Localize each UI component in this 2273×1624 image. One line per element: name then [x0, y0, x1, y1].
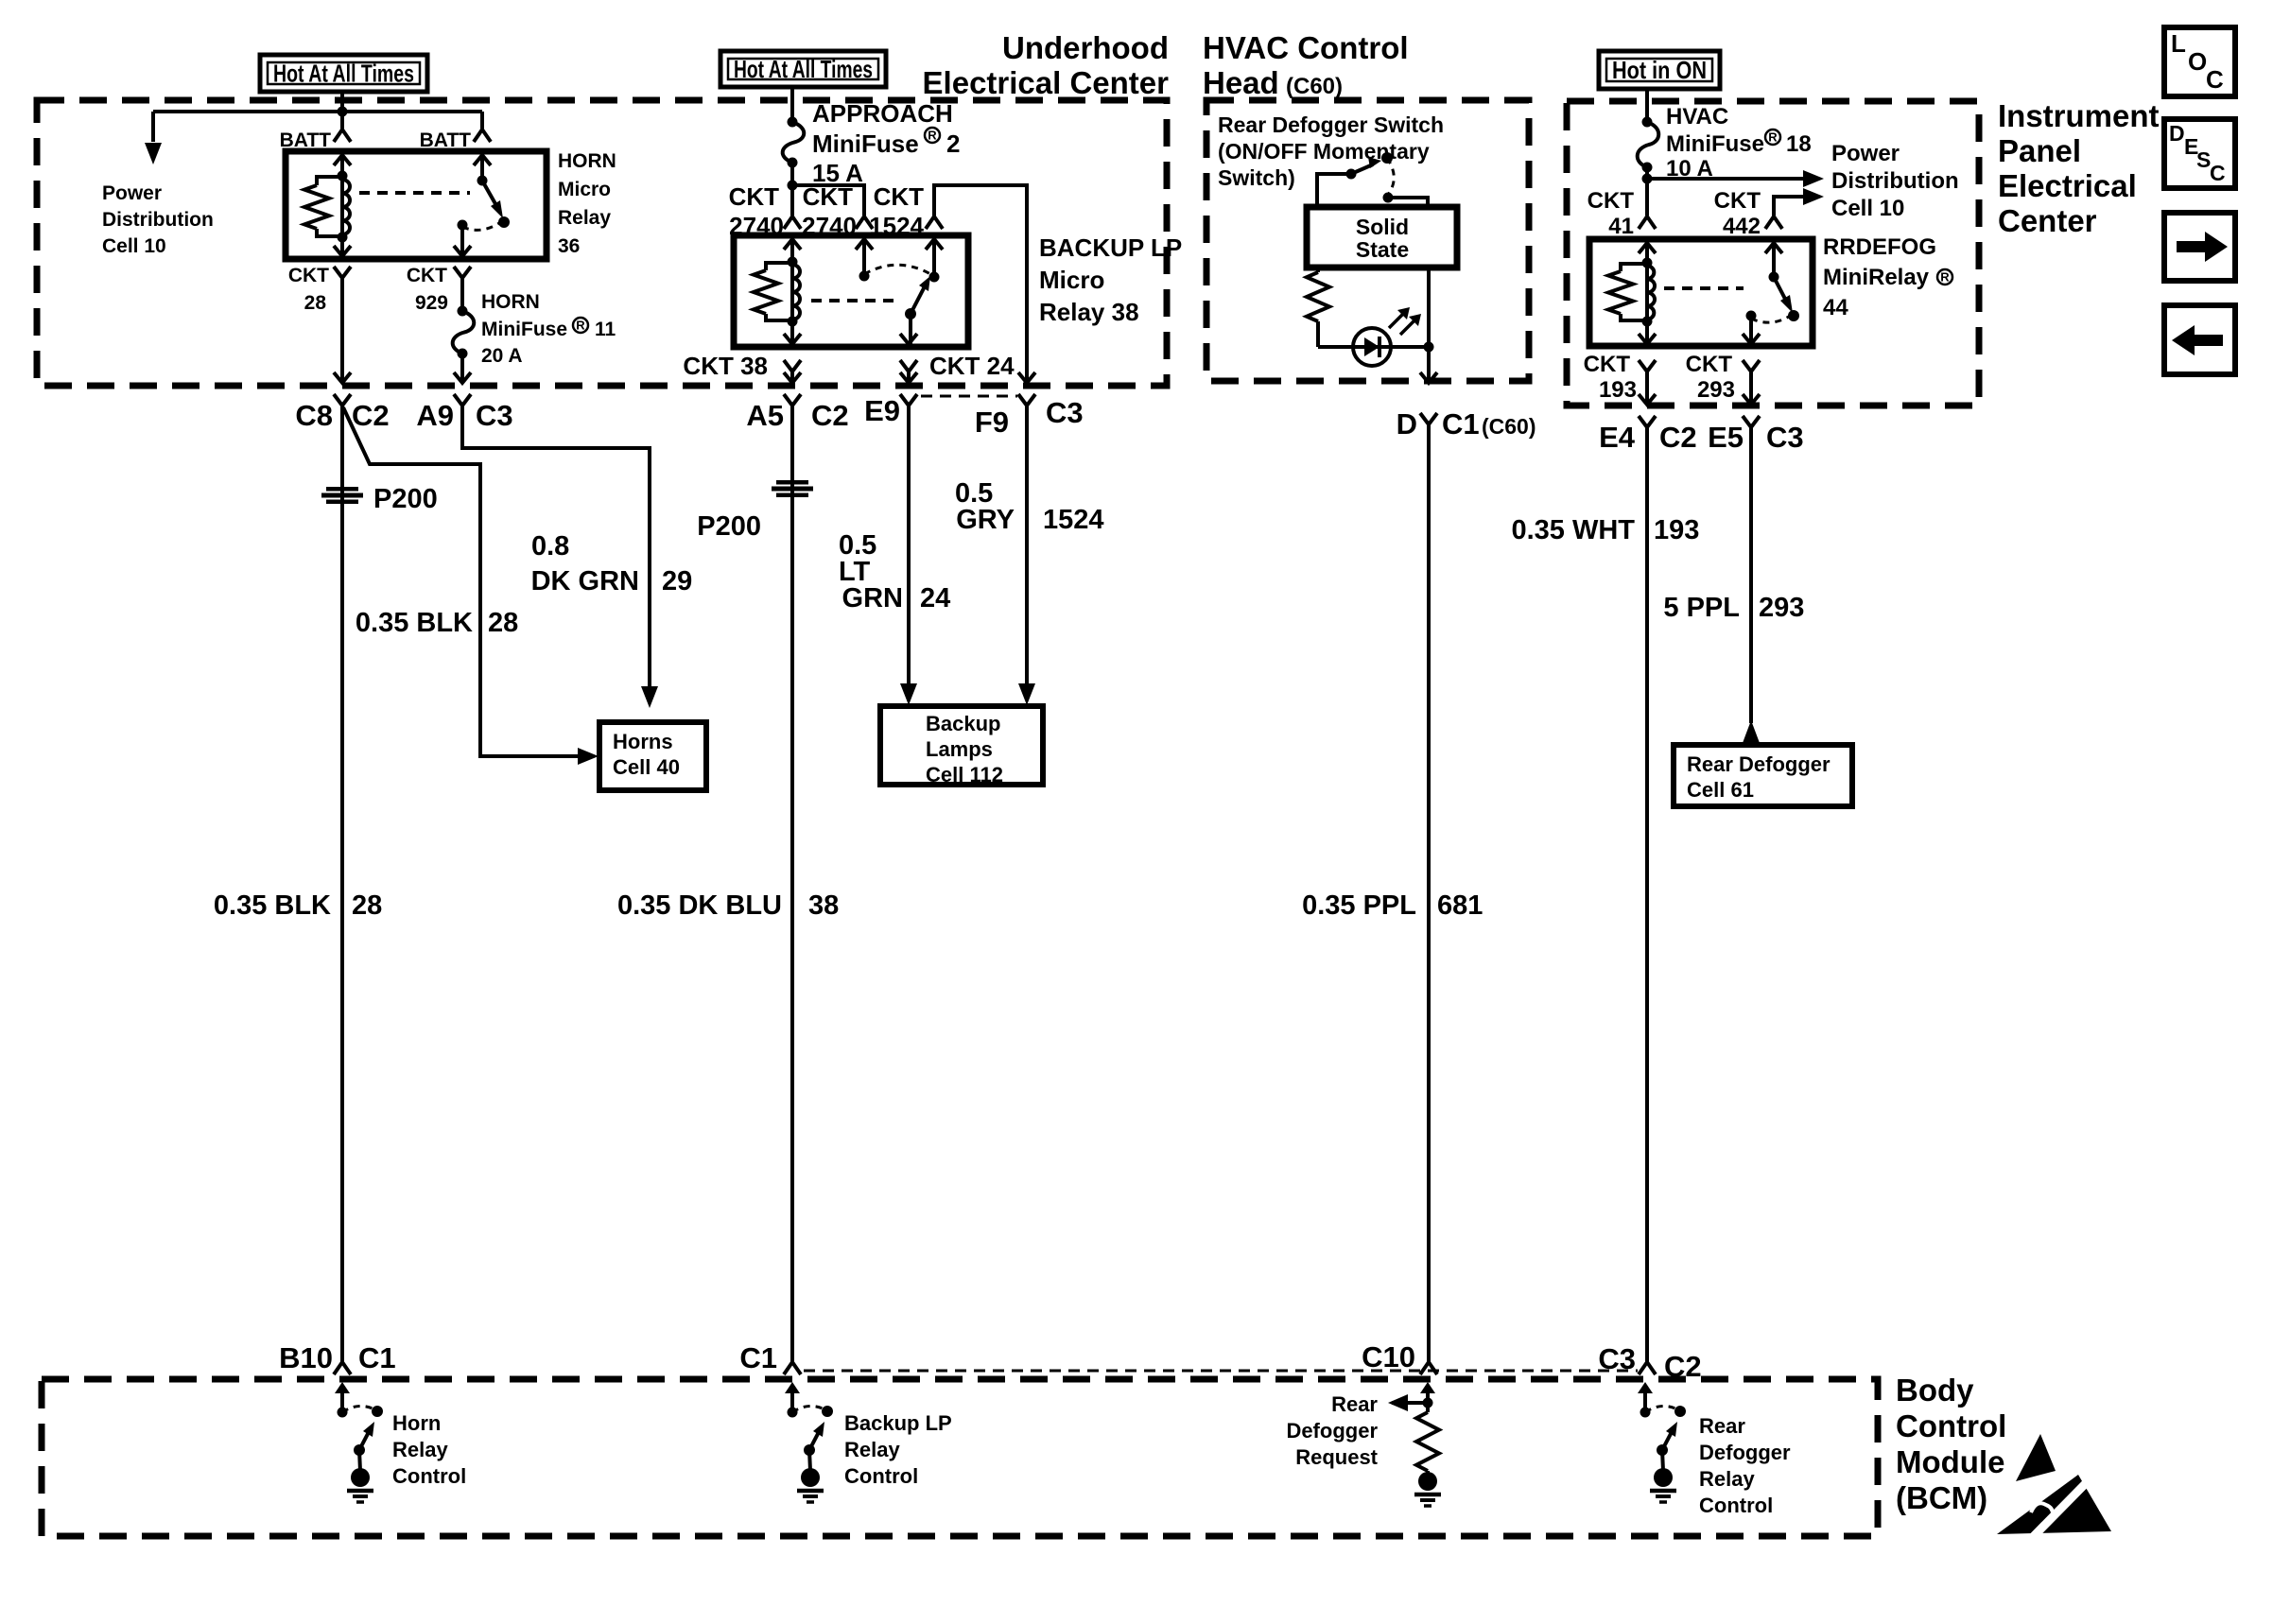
- wire CKT 929 to fuse: [460, 278, 464, 311]
- dashed pin link C1-C10-C3: [804, 1370, 1638, 1373]
- wire fuse F11 to border: [460, 354, 464, 382]
- svg-text:A9: A9: [416, 399, 454, 432]
- connector C8 of C2 (horn): [334, 394, 351, 406]
- svg-text:28: 28: [352, 890, 382, 921]
- svg-text:O: O: [2188, 47, 2207, 76]
- svg-text:APPROACH: APPROACH: [812, 99, 953, 128]
- relay K38 stationary post entering arrow: [856, 239, 873, 250]
- svg-text:442: 442: [1723, 214, 1761, 239]
- svg-text:Backup LP: Backup LP: [844, 1411, 952, 1435]
- svg-text:R: R: [928, 129, 937, 143]
- connector pin CKT 24: [900, 360, 917, 371]
- svg-text:28: 28: [304, 292, 327, 314]
- momentary switch pivot contact: [1381, 152, 1393, 164]
- arrow into horns cell 40: [578, 748, 599, 765]
- arrow rear defogger request: [1388, 1394, 1408, 1411]
- svg-text:Micro: Micro: [1039, 266, 1104, 294]
- wire 0.8 DK GRN 29 from A9 to horns cell: [462, 406, 650, 698]
- relay K38 coil post wire: [790, 237, 794, 345]
- wire BATT drop to horn relay switch pin: [480, 112, 484, 130]
- indicator LED: [1353, 328, 1391, 366]
- svg-text:Cell 10: Cell 10: [1831, 196, 1904, 221]
- arrow CKT 929 leaving underhood center: [454, 372, 471, 383]
- junction LED to output: [1424, 342, 1434, 353]
- relay K38 stationary contact: [859, 271, 870, 282]
- svg-text:C1: C1: [1442, 407, 1480, 441]
- hot in ON flag: [1599, 51, 1720, 89]
- horns cell 40 box: [599, 722, 706, 790]
- svg-text:Hot At All Times: Hot At All Times: [734, 55, 873, 83]
- svg-text:Instrument: Instrument: [1998, 98, 2160, 133]
- svg-text:CKT: CKT: [288, 265, 329, 286]
- svg-text:Center: Center: [1998, 203, 2097, 238]
- svg-text:C3: C3: [1046, 396, 1084, 429]
- connector pin CKT 929: [454, 267, 471, 278]
- arrow into backup lamps (CKT 24): [900, 683, 917, 705]
- svg-text:L: L: [2171, 29, 2186, 58]
- momentary switch movable arm: [1351, 164, 1373, 174]
- svg-text:HORN: HORN: [558, 150, 616, 172]
- connector C1 (backup relay control): [784, 1362, 801, 1374]
- relay K36 output exiting arrow: [454, 246, 471, 256]
- svg-text:Cell 61: Cell 61: [1687, 778, 1754, 802]
- arrow into backup lamps (CKT 1524): [1018, 683, 1035, 705]
- connector pin CKT 41: [1639, 216, 1656, 229]
- svg-text:C3: C3: [1598, 1342, 1636, 1375]
- svg-text:CKT: CKT: [1588, 188, 1635, 214]
- relay K36 switch movable arm: [482, 181, 498, 209]
- arrow CKT 293 leaving ip center: [1743, 394, 1760, 405]
- wire CKT 28 to border: [340, 278, 344, 382]
- svg-text:Request: Request: [1295, 1445, 1378, 1469]
- svg-text:C: C: [2206, 65, 2224, 94]
- svg-text:E5: E5: [1708, 421, 1744, 454]
- relay K38 coil return exiting arrow: [784, 334, 801, 344]
- svg-text:Distribution: Distribution: [102, 209, 214, 231]
- wire to power distribution cell 10: [1647, 177, 1815, 181]
- fuse F2 APPROACH MiniFuse 15A: [788, 117, 798, 128]
- connector pin CKT 28: [334, 267, 351, 278]
- svg-text:Solid: Solid: [1356, 215, 1409, 239]
- wire CKT 24 to border: [907, 371, 911, 382]
- relay K38 switch post entering arrow: [926, 239, 943, 250]
- svg-text:State: State: [1356, 237, 1409, 262]
- svg-text:Rear Defogger Switch: Rear Defogger Switch: [1218, 112, 1444, 137]
- svg-text:C: C: [2210, 161, 2226, 185]
- relay K36 switch post wire: [480, 153, 484, 181]
- arrow into rear defogger cell 61: [1743, 720, 1760, 743]
- body control module enclosure (dashed): [42, 1379, 1878, 1536]
- svg-text:11: 11: [595, 319, 616, 340]
- svg-text:0.35 DK BLU: 0.35 DK BLU: [617, 890, 782, 921]
- resistor (LED dropping): [1316, 268, 1320, 272]
- svg-text:681: 681: [1437, 890, 1483, 921]
- BCM rear defogger request input: [1420, 1382, 1435, 1393]
- svg-text:24: 24: [920, 583, 950, 613]
- back arrow icon button: [2164, 305, 2235, 374]
- wire 0.35 BLK 28 vertical run to BCM: [340, 406, 344, 1362]
- svg-text:Panel: Panel: [1998, 133, 2081, 168]
- relay K44 stationary contact: [1746, 311, 1757, 321]
- connector pin CKT 2740 switch: [856, 216, 873, 229]
- svg-text:CKT: CKT: [1714, 188, 1761, 214]
- relay K38 coil post entering arrow: [784, 239, 801, 250]
- relay K38 BACKUP LP micro relay outline: [734, 235, 968, 347]
- wire LED row: [1318, 345, 1429, 349]
- relay K38 switch post wire: [932, 237, 936, 277]
- arrow CKT 24 leaving underhood center: [900, 372, 917, 383]
- svg-text:Micro: Micro: [558, 179, 611, 200]
- svg-text:CKT: CKT: [1584, 352, 1631, 377]
- svg-text:0.35 BLK: 0.35 BLK: [356, 608, 473, 638]
- svg-text:Defogger: Defogger: [1286, 1419, 1378, 1443]
- momentary switch left leg: [1317, 174, 1346, 207]
- svg-text:C2: C2: [1659, 421, 1697, 454]
- svg-text:Backup: Backup: [926, 712, 1000, 735]
- LOC icon button: [2164, 27, 2235, 96]
- junction node BATT feed: [338, 107, 348, 117]
- wire hot in ON to fuse F18: [1645, 89, 1649, 122]
- connector pin CKT 38: [784, 360, 801, 371]
- svg-text:Power: Power: [102, 182, 162, 204]
- svg-text:MiniRelay: MiniRelay: [1823, 265, 1930, 290]
- arrow CKT 442 to power distribution: [1803, 188, 1824, 205]
- svg-text:Horns: Horns: [613, 730, 673, 753]
- svg-text:Defogger: Defogger: [1699, 1441, 1791, 1464]
- momentary switch right contact: [1383, 193, 1394, 203]
- svg-text:Underhood: Underhood: [1002, 30, 1169, 65]
- svg-text:(C60): (C60): [1286, 74, 1343, 99]
- relay K44 RRDEFOG minirelay outline: [1589, 239, 1813, 346]
- wire branch from C8 to horns cell: [343, 407, 590, 756]
- svg-text:38: 38: [808, 890, 839, 921]
- svg-text:D: D: [1397, 407, 1417, 441]
- svg-text:BACKUP LP: BACKUP LP: [1039, 233, 1182, 262]
- svg-text:C3: C3: [476, 399, 513, 432]
- svg-text:0.35 WHT: 0.35 WHT: [1511, 515, 1635, 545]
- wire CKT 38 to border: [790, 371, 794, 382]
- fuse F18 HVAC MiniFuse 10A: [1642, 117, 1653, 128]
- svg-text:P200: P200: [373, 484, 438, 514]
- underhood electrical center enclosure (dashed): [37, 100, 1167, 386]
- svg-text:B10: B10: [279, 1341, 333, 1374]
- svg-text:HVAC: HVAC: [1666, 104, 1728, 130]
- arrow CKT 28 leaving underhood center: [334, 372, 351, 383]
- connector E4 of C2 (defog relay control): [1639, 416, 1656, 427]
- svg-text:CKT: CKT: [729, 182, 780, 211]
- svg-text:Rear: Rear: [1331, 1392, 1378, 1416]
- relay K44 output wire: [1749, 316, 1753, 344]
- svg-text:C2: C2: [811, 399, 849, 432]
- LED emission arrows: [1389, 311, 1406, 328]
- connector C10 (defogger request): [1420, 1362, 1437, 1374]
- arrow to power distribution cell 10: [145, 143, 162, 164]
- svg-text:R: R: [576, 319, 585, 333]
- svg-text:R: R: [1940, 270, 1950, 285]
- svg-text:CKT: CKT: [803, 182, 854, 211]
- connector B10 of C1 (horn relay control): [334, 1362, 351, 1374]
- relay K44 switch arm end contact: [1788, 310, 1799, 321]
- dashed link C2-C3 pins: [921, 395, 1017, 398]
- wire from hot flag to fuse F2: [790, 87, 794, 122]
- relay K38 suppression resistor: [766, 263, 792, 270]
- arrow to power distribution cell 10: [1803, 170, 1824, 187]
- connector C3-C2 (defog relay control): [1639, 1362, 1656, 1374]
- relay K36 output wire: [460, 225, 464, 256]
- relay K36 switch post entering arrow: [474, 155, 491, 165]
- connector pin CKT 1524: [926, 216, 943, 229]
- wire 0.35 PPL 681 run to BCM: [1427, 424, 1431, 1362]
- relay K36 coil return exiting arrow: [334, 246, 351, 256]
- svg-text:C3: C3: [1766, 421, 1804, 454]
- svg-text:(ON/OFF Momentary: (ON/OFF Momentary: [1218, 139, 1430, 164]
- connector A9 of C3 (horn feed): [454, 394, 471, 406]
- relay K36 coil top junction: [338, 171, 348, 181]
- svg-text:Power: Power: [1831, 141, 1900, 166]
- wire CKT 1524 riser: [934, 185, 1027, 382]
- svg-text:C2: C2: [352, 399, 390, 432]
- wire 0.5 LT GRN 24 to backup lamps: [907, 406, 911, 686]
- svg-text:RRDEFOG: RRDEFOG: [1823, 234, 1936, 260]
- junction power distribution tap: [1642, 174, 1653, 184]
- svg-text:29: 29: [662, 566, 692, 596]
- svg-text:44: 44: [1823, 295, 1848, 320]
- svg-text:Distribution: Distribution: [1831, 168, 1959, 194]
- wire to request sense: [1392, 1401, 1428, 1405]
- relay K44 coil bottom junction: [1642, 317, 1653, 327]
- connector A5 of C2 (backup relay control): [784, 394, 801, 406]
- svg-text:18: 18: [1786, 131, 1812, 157]
- relay K44 switch pivot: [1769, 272, 1779, 283]
- svg-text:193: 193: [1599, 377, 1637, 403]
- pull resistor (request input): [1416, 1412, 1439, 1471]
- svg-text:Control: Control: [844, 1464, 918, 1488]
- svg-text:Horn: Horn: [392, 1411, 441, 1435]
- wire CKT 442 to power distribution: [1774, 197, 1815, 216]
- svg-text:Control: Control: [1896, 1408, 2006, 1443]
- svg-text:Rear Defogger: Rear Defogger: [1687, 752, 1831, 776]
- HVAC control head enclosure (dashed): [1206, 100, 1529, 381]
- relay K38 switch pivot: [929, 272, 940, 283]
- solid state output wire: [1427, 268, 1431, 381]
- relay K44 dashed throw: [1751, 315, 1792, 322]
- connector F9 of C3 (backup lamps): [1018, 394, 1035, 406]
- relay K36 coil-armature dashed link: [359, 191, 470, 195]
- ground (request input): [1418, 1472, 1437, 1491]
- relay K38 output exiting arrow: [900, 334, 917, 344]
- relay K36 switch arm end contact: [498, 216, 510, 228]
- svg-text:CKT: CKT: [1686, 352, 1733, 377]
- svg-text:36: 36: [558, 235, 580, 257]
- svg-text:P200: P200: [697, 511, 761, 542]
- svg-text:D: D: [2169, 121, 2185, 146]
- relay K36 coil bottom junction: [338, 233, 348, 243]
- svg-text:Hot in ON: Hot in ON: [1612, 56, 1707, 84]
- svg-text:Body: Body: [1896, 1373, 1974, 1408]
- connector E9 of C2 (backup lamps): [900, 394, 917, 406]
- wire BATT drop to horn relay pin: [340, 112, 344, 130]
- relay K44 switch post entering arrow: [1765, 243, 1782, 253]
- svg-text:Relay 38: Relay 38: [1039, 298, 1139, 326]
- wire 0.5 GRY 1524 to backup lamps: [1025, 406, 1029, 686]
- svg-text:HVAC Control: HVAC Control: [1203, 30, 1409, 65]
- svg-text:GRY: GRY: [956, 505, 1015, 535]
- svg-text:DK GRN: DK GRN: [531, 566, 639, 596]
- svg-text:C1: C1: [358, 1341, 396, 1374]
- svg-text:293: 293: [1697, 377, 1735, 403]
- svg-text:A5: A5: [746, 399, 784, 432]
- rear defogger cell 61 box: [1674, 745, 1852, 806]
- relay K36 HORN micro relay outline: [286, 151, 547, 259]
- BCM horn relay driver switch: [335, 1382, 350, 1393]
- connector D of C1 (C60): [1420, 413, 1437, 424]
- momentary switch dashed throw: [1387, 158, 1394, 195]
- relay K38 output wire: [909, 314, 912, 344]
- relay K44 output exiting arrow: [1743, 334, 1760, 344]
- svg-text:CKT: CKT: [407, 265, 447, 286]
- relay K36 coil post wire: [340, 153, 344, 257]
- connector pin BATT (horn relay coil): [334, 130, 351, 142]
- svg-text:Control: Control: [392, 1464, 466, 1488]
- svg-text:Control: Control: [1699, 1494, 1773, 1517]
- relay K44 suppression resistor: [1621, 264, 1647, 271]
- BCM backup lp relay driver switch: [785, 1382, 800, 1393]
- wire 0.35 DK BLU 38 vertical run to BCM: [790, 406, 794, 1362]
- svg-text:(BCM): (BCM): [1896, 1480, 1987, 1515]
- svg-text:Hot At All Times: Hot At All Times: [273, 60, 414, 88]
- svg-text:C1: C1: [739, 1341, 777, 1374]
- connector pin BATT (horn relay switch): [474, 130, 491, 142]
- svg-text:0.8: 0.8: [531, 531, 569, 561]
- svg-text:GRN: GRN: [842, 583, 903, 613]
- svg-text:Relay: Relay: [558, 207, 611, 229]
- relay K38 dashed throw: [864, 265, 932, 275]
- relay K44 coil post wire: [1645, 241, 1649, 344]
- svg-text:Switch): Switch): [1218, 165, 1295, 190]
- svg-text:C8: C8: [295, 399, 333, 432]
- arrow CKT 193 leaving ip center: [1639, 394, 1656, 405]
- momentary switch right leg: [1388, 198, 1428, 207]
- svg-text:F9: F9: [975, 406, 1009, 439]
- wire CKT 193 to border: [1645, 371, 1649, 404]
- arrow CKT 38 leaving underhood center: [784, 372, 801, 383]
- svg-text:0.35 BLK: 0.35 BLK: [214, 890, 331, 921]
- svg-text:0.35 PPL: 0.35 PPL: [1302, 890, 1416, 921]
- relay K38 coil winding: [792, 265, 800, 320]
- instrument panel electrical center enclosure (dashed): [1567, 101, 1979, 406]
- relay K36 coil winding: [342, 180, 350, 234]
- svg-text:R: R: [1768, 130, 1778, 145]
- wire CKT 2740 branch to switch post: [792, 185, 864, 216]
- hot at all times flag (horn feed): [260, 55, 427, 92]
- relay K36 switch dashed throw: [462, 221, 502, 230]
- relay K44 switch post wire: [1772, 241, 1776, 277]
- arrow CKT 1524 leaving underhood center: [1018, 372, 1035, 383]
- relay K38 switch movable arm: [911, 286, 925, 314]
- svg-text:20 A: 20 A: [481, 345, 523, 367]
- wire from hot-at-all-times into underhood center: [340, 92, 344, 112]
- svg-text:Rear: Rear: [1699, 1414, 1745, 1438]
- relay K38 coil-armature dashed link: [811, 299, 894, 302]
- svg-text:Lamps: Lamps: [926, 737, 993, 761]
- ESD sensitive device symbol: [2016, 1434, 2056, 1481]
- pass-through grommet P200 (backup wire): [776, 480, 808, 485]
- svg-text:Module: Module: [1896, 1444, 2004, 1479]
- wire fuse F2 to relay feed junction: [790, 163, 794, 216]
- wire 0.35 WHT 193 run to BCM: [1645, 427, 1649, 1362]
- connector pin CKT 442: [1765, 216, 1782, 229]
- relay K44 coil post entering arrow: [1639, 243, 1656, 253]
- svg-text:929: 929: [415, 292, 448, 314]
- arrow leaving HVAC control head: [1420, 372, 1437, 383]
- wire drop to power distribution: [151, 112, 155, 142]
- relay K38 coil bottom junction: [788, 317, 798, 327]
- svg-text:2: 2: [946, 130, 960, 158]
- svg-text:28: 28: [488, 608, 518, 638]
- relay K38 switch arm base contact: [905, 308, 916, 320]
- svg-text:41: 41: [1608, 214, 1634, 239]
- svg-text:E4: E4: [1599, 421, 1636, 454]
- svg-text:Electrical Center: Electrical Center: [923, 65, 1170, 100]
- solid state module box: [1307, 207, 1457, 268]
- connector pin CKT 193: [1639, 360, 1656, 371]
- relay K36 coil post entering arrow: [334, 155, 351, 165]
- DESC icon button: [2164, 119, 2235, 188]
- fuse F11 HORN MiniFuse 20A: [458, 306, 468, 317]
- svg-text:E9: E9: [864, 394, 900, 427]
- wire 5 PPL 293 to rear defogger: [1749, 427, 1753, 723]
- relay K44 coil-armature dashed link: [1664, 286, 1744, 290]
- svg-text:C2: C2: [1664, 1350, 1702, 1383]
- relay K44 coil return exiting arrow: [1639, 334, 1656, 344]
- connector E5 of C3 (defogger feed): [1743, 416, 1760, 427]
- svg-text:HORN: HORN: [481, 291, 540, 313]
- wire BATT feed horizontal: [153, 110, 482, 113]
- relay K38 stationary post wire: [862, 237, 866, 276]
- relay K44 switch movable arm: [1774, 277, 1787, 302]
- svg-text:193: 193: [1654, 515, 1699, 545]
- svg-text:MiniFuse: MiniFuse: [812, 130, 919, 158]
- svg-text:MiniFuse: MiniFuse: [481, 319, 567, 340]
- pass-through grommet P200 (horn wire): [326, 487, 358, 492]
- svg-text:Electrical: Electrical: [1998, 168, 2137, 203]
- svg-text:Relay: Relay: [1699, 1467, 1755, 1491]
- junction CKT 2740 split: [788, 181, 798, 191]
- relay K36 suppression resistor: [317, 177, 342, 185]
- svg-text:Relay: Relay: [844, 1438, 900, 1461]
- wire CKT 293 to border: [1749, 371, 1753, 404]
- svg-text:CKT: CKT: [874, 182, 925, 211]
- relay K36 stationary contact: [458, 220, 468, 231]
- connector pin CKT 2740 coil: [784, 216, 801, 229]
- backup lamps cell 112 box: [880, 706, 1043, 785]
- svg-text:(C60): (C60): [1482, 414, 1536, 439]
- svg-text:293: 293: [1759, 593, 1804, 623]
- svg-text:Cell 112: Cell 112: [926, 763, 1003, 786]
- svg-text:Head: Head: [1203, 65, 1279, 100]
- svg-text:MiniFuse: MiniFuse: [1666, 131, 1764, 157]
- momentary switch left contact: [1346, 169, 1357, 180]
- relay K38 coil top junction: [788, 257, 798, 268]
- svg-text:CKT 38: CKT 38: [683, 352, 768, 380]
- svg-text:5 PPL: 5 PPL: [1663, 593, 1740, 623]
- wire fuse to relay feed: [1645, 167, 1649, 216]
- svg-text:C10: C10: [1362, 1340, 1415, 1373]
- svg-text:Relay: Relay: [392, 1438, 448, 1461]
- hot at all times flag (backup feed): [720, 51, 886, 87]
- relay K44 coil winding: [1647, 266, 1655, 320]
- BCM rear defogger relay driver switch: [1638, 1382, 1653, 1393]
